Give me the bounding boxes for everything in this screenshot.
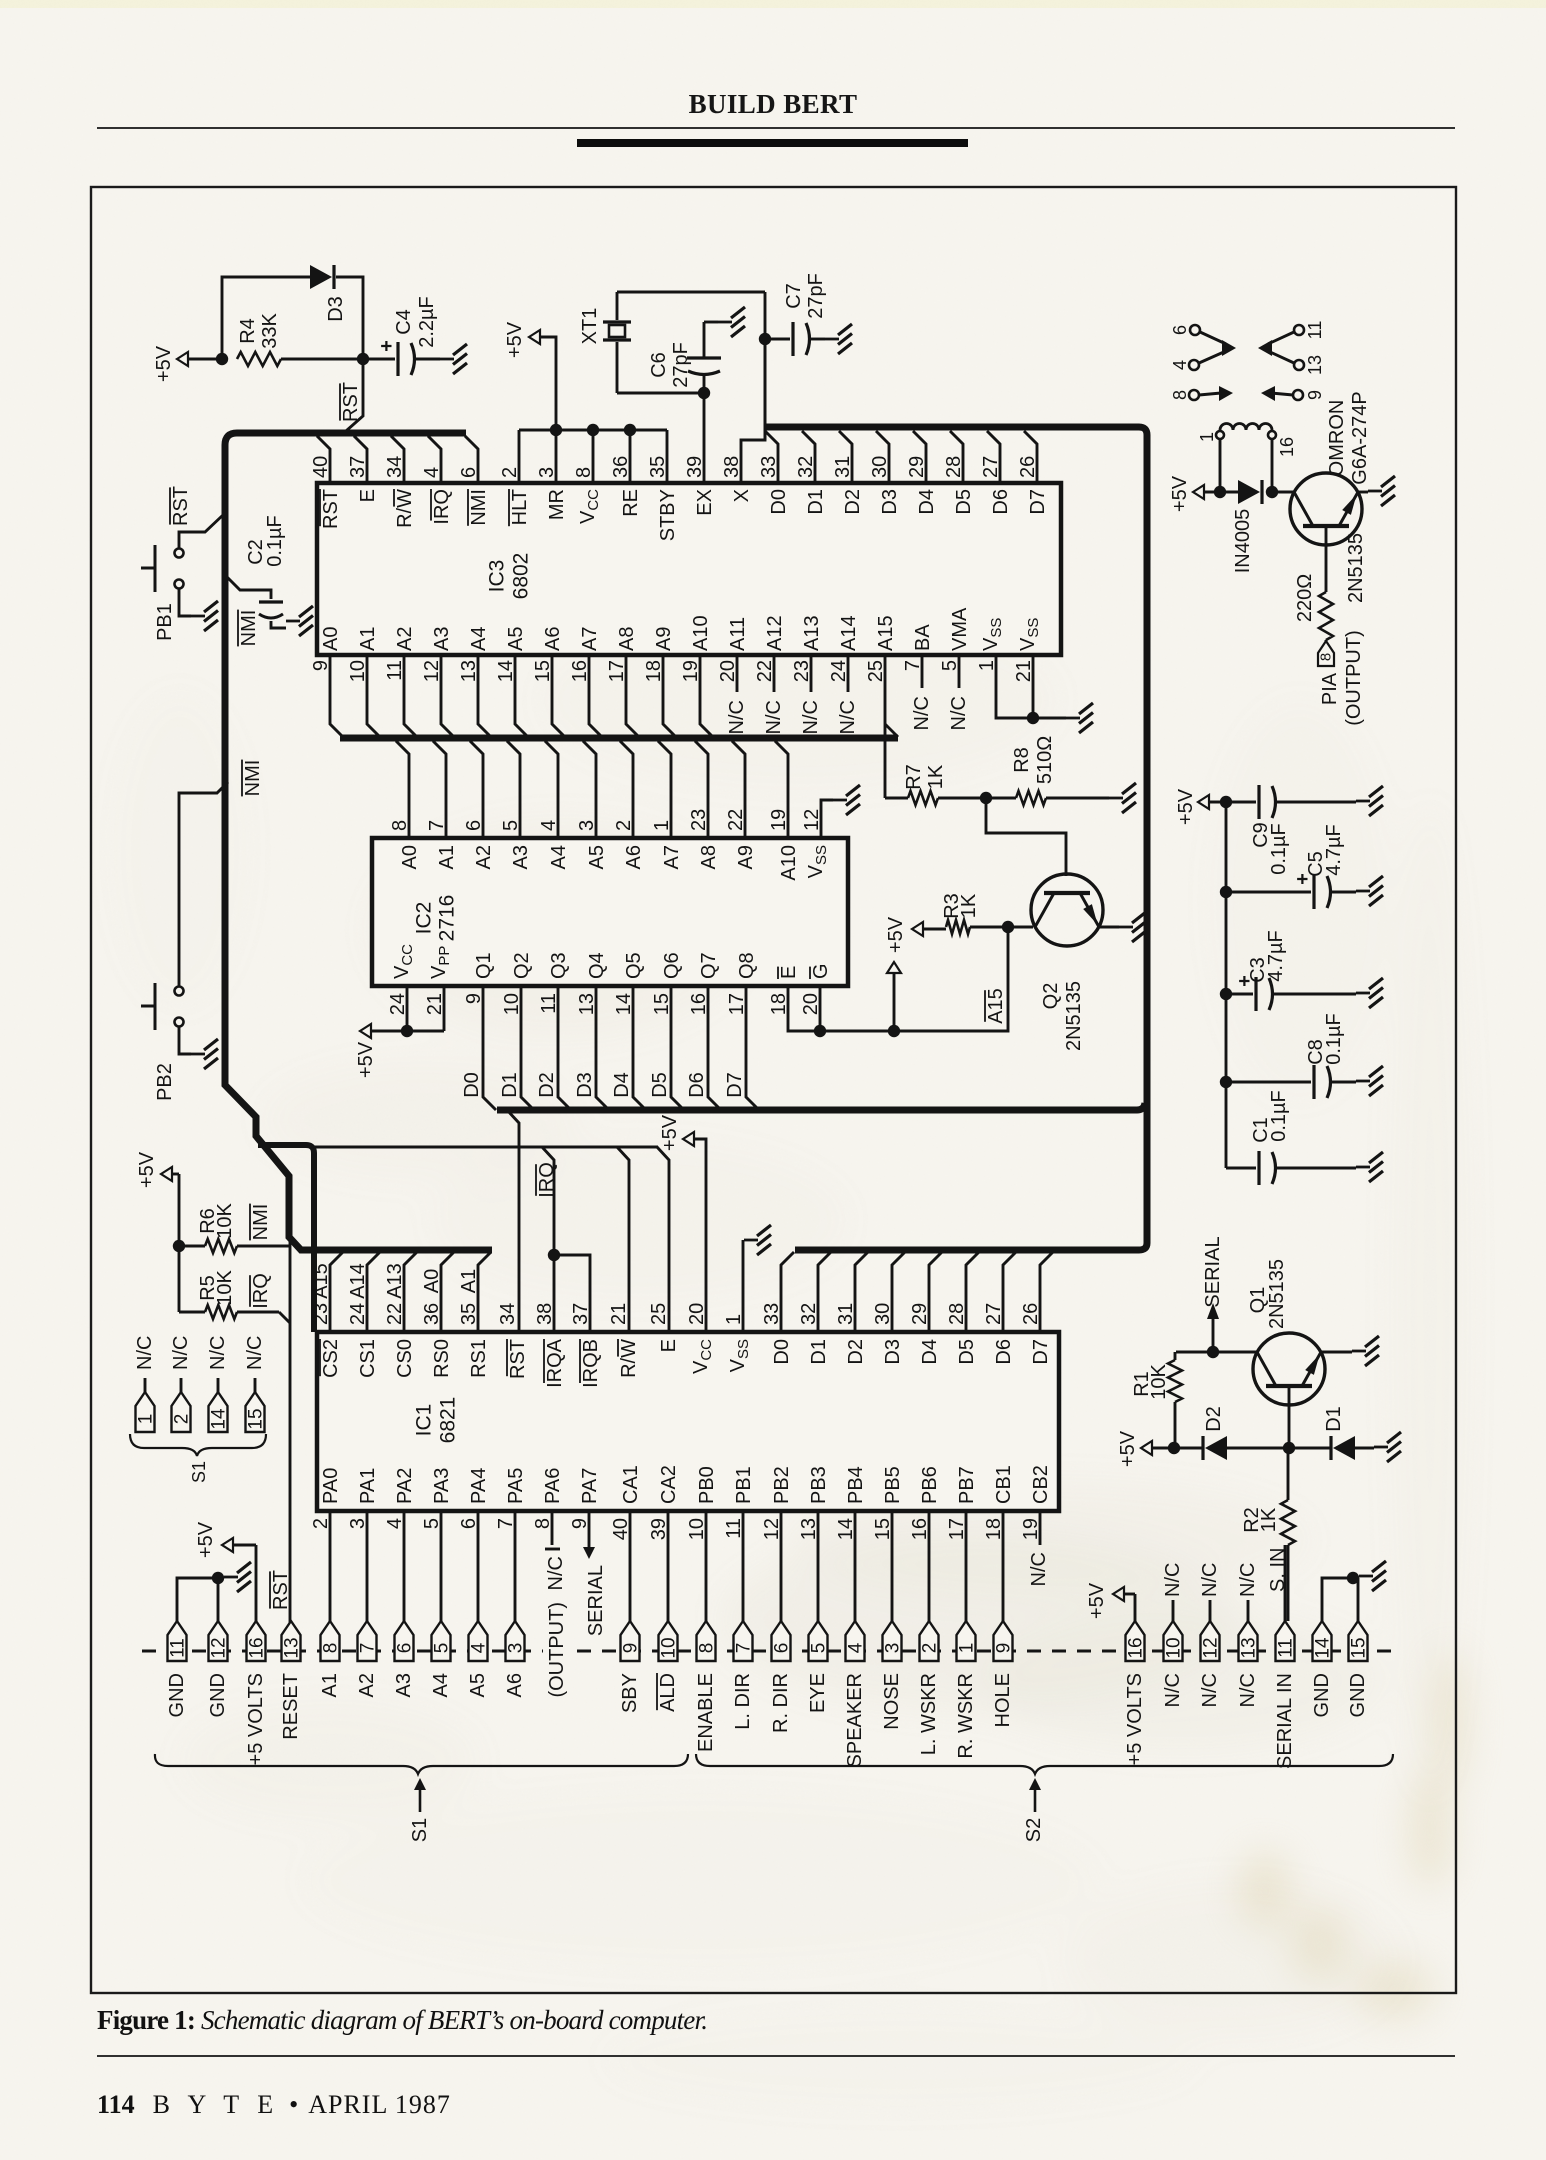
junction RST node bbox=[357, 353, 369, 365]
svg-text:PB7: PB7 bbox=[956, 1466, 978, 1504]
IC1 pin 17 PB7 bbox=[946, 1466, 978, 1621]
figure border frame bbox=[91, 187, 1456, 1993]
IC2 pin 17 Q8 bbox=[724, 952, 759, 1110]
svg-text:A6: A6 bbox=[504, 1673, 526, 1697]
svg-text:23: 23 bbox=[310, 1303, 332, 1325]
IC1 pin 7 PA5 bbox=[495, 1468, 527, 1621]
svg-text:10: 10 bbox=[1164, 1637, 1185, 1658]
ground C3 bbox=[1356, 992, 1370, 995]
svg-text:+5V: +5V bbox=[355, 1041, 377, 1078]
svg-text:A1: A1 bbox=[319, 1673, 341, 1697]
svg-text:N/C: N/C bbox=[244, 1336, 266, 1370]
svg-text:+5 VOLTS: +5 VOLTS bbox=[1124, 1673, 1146, 1765]
transistor 2N5135 relay driver bbox=[1290, 473, 1367, 603]
IC3 pin 30 D3 bbox=[869, 431, 901, 515]
svg-text:D7: D7 bbox=[1027, 489, 1049, 515]
svg-text:+5V: +5V bbox=[136, 1151, 158, 1188]
svg-text:510Ω: 510Ω bbox=[1034, 736, 1056, 784]
svg-text:10K: 10K bbox=[214, 1203, 236, 1239]
IC3 pin 6 NMI bbox=[458, 436, 490, 526]
svg-text:A10: A10 bbox=[778, 845, 800, 881]
svg-text:A10: A10 bbox=[690, 615, 712, 651]
svg-text:A14: A14 bbox=[838, 615, 860, 651]
wire D3 branch rail bbox=[222, 277, 310, 359]
wire Q1 base bbox=[1288, 1388, 1291, 1448]
IC3 pin 22 A12 bbox=[754, 615, 786, 734]
ground PB2 bbox=[191, 1053, 205, 1056]
IC1 pin 20 Vcc bbox=[686, 1139, 715, 1374]
svg-text:24: 24 bbox=[347, 1303, 369, 1325]
svg-text:PA4: PA4 bbox=[468, 1468, 490, 1504]
svg-text:N/C: N/C bbox=[134, 1336, 156, 1370]
svg-text:RST: RST bbox=[320, 489, 342, 529]
IC1 pin 8 PA6 bbox=[532, 1468, 564, 1549]
resistor R7 1K bbox=[885, 764, 986, 805]
IC2 pin 8 A0 bbox=[389, 741, 421, 869]
svg-text:D4: D4 bbox=[611, 1072, 633, 1098]
svg-text:D2: D2 bbox=[845, 1339, 867, 1365]
svg-text:SERIAL IN: SERIAL IN bbox=[1274, 1673, 1296, 1769]
IC1 pin 40 CA1 bbox=[610, 1465, 642, 1621]
wire N/C stub tag at 1248 bbox=[1237, 1563, 1259, 1621]
svg-text:A4: A4 bbox=[468, 627, 490, 651]
svg-text:+5V: +5V bbox=[153, 345, 175, 382]
svg-text:6: 6 bbox=[463, 820, 485, 831]
svg-text:A9: A9 bbox=[735, 845, 757, 869]
svg-text:15: 15 bbox=[1349, 1637, 1370, 1658]
svg-text:A1: A1 bbox=[458, 1269, 480, 1293]
connector tag 8 A1 bbox=[319, 1621, 342, 1697]
IC1 pin 14 PB4 bbox=[835, 1466, 867, 1621]
connector tag 5 A4 bbox=[430, 1621, 453, 1697]
IC3 pin 8 Vcc bbox=[573, 430, 602, 524]
svg-text:E: E bbox=[357, 489, 379, 502]
svg-text:PB2: PB2 bbox=[154, 1063, 176, 1101]
wire GND 14 15 to ground bbox=[1322, 1572, 1359, 1621]
IC3 pin 13 A4 bbox=[458, 627, 491, 737]
IC3 pin 5 VMA bbox=[939, 607, 971, 730]
svg-text:A4: A4 bbox=[548, 845, 570, 869]
svg-text:A0: A0 bbox=[421, 1269, 443, 1293]
IC2 pin 22 A9 bbox=[725, 741, 757, 869]
power +5V IC2 Vcc Vpp bbox=[355, 1024, 444, 1078]
IC1 pin 34 RST bbox=[497, 1110, 529, 1379]
svg-text:8: 8 bbox=[1318, 653, 1335, 661]
IC1 pin 39 CA2 bbox=[648, 1465, 680, 1621]
svg-text:A1: A1 bbox=[436, 845, 458, 869]
svg-text:1: 1 bbox=[957, 1643, 978, 1654]
IC3 pin 29 D4 bbox=[906, 431, 938, 515]
svg-text:D5: D5 bbox=[649, 1072, 671, 1098]
svg-text:14: 14 bbox=[209, 1408, 230, 1430]
svg-text:Q3: Q3 bbox=[548, 952, 570, 979]
svg-text:RST: RST bbox=[340, 382, 362, 422]
svg-text:GND: GND bbox=[166, 1673, 188, 1717]
IC3 pin 24 A14 bbox=[828, 615, 860, 734]
pushbutton PB1 bbox=[141, 545, 184, 641]
svg-text:A5: A5 bbox=[505, 627, 527, 651]
connector tag 13 N/C bbox=[1237, 1621, 1260, 1707]
IC3 pin 39 EX bbox=[684, 393, 716, 516]
connector tag 11 SERIAL IN bbox=[1274, 1621, 1297, 1769]
IC2 pin 18 E bbox=[768, 966, 820, 1031]
svg-text:9: 9 bbox=[994, 1643, 1015, 1654]
svg-text:8: 8 bbox=[1170, 390, 1190, 400]
svg-text:9: 9 bbox=[621, 1643, 642, 1654]
svg-text:G: G bbox=[810, 963, 832, 979]
junction R3 Q2 A15 bbox=[1002, 921, 1014, 933]
diode D2 bbox=[1174, 1406, 1289, 1460]
svg-text:RST: RST bbox=[270, 1570, 292, 1610]
svg-text:34: 34 bbox=[497, 1303, 519, 1325]
svg-text:E: E bbox=[658, 1339, 680, 1352]
svg-text:+5 VOLTS: +5 VOLTS bbox=[245, 1673, 267, 1765]
svg-text:11: 11 bbox=[1276, 1638, 1297, 1658]
ground C7 bbox=[825, 338, 839, 341]
ground C2 bbox=[286, 620, 300, 623]
svg-text:+5V: +5V bbox=[504, 321, 526, 358]
svg-text:1: 1 bbox=[651, 820, 673, 831]
svg-text:R/W: R/W bbox=[618, 1339, 640, 1378]
IC3 pin 37 E bbox=[347, 436, 379, 502]
svg-text:5: 5 bbox=[432, 1643, 453, 1654]
junction IC3 Vss pins bbox=[1027, 712, 1039, 724]
svg-text:12: 12 bbox=[1201, 1637, 1222, 1658]
svg-text:S. IN: S. IN bbox=[1267, 1548, 1289, 1592]
svg-text:+5V: +5V bbox=[1117, 1430, 1139, 1467]
IC3 pin 33 D0 bbox=[758, 431, 790, 515]
svg-text:17: 17 bbox=[726, 993, 748, 1015]
IC IC2 2716 body bbox=[372, 838, 848, 986]
svg-text:0.1µF: 0.1µF bbox=[264, 515, 286, 567]
resistor 220ohm bbox=[1294, 526, 1333, 640]
transistor Q1 2N5135 bbox=[1247, 1259, 1325, 1405]
junction coil16 diode bbox=[1266, 486, 1278, 498]
IC2 pin 13 Q4 bbox=[574, 952, 609, 1110]
svg-text:(OUTPUT): (OUTPUT) bbox=[546, 1602, 568, 1698]
svg-text:L. DIR: L. DIR bbox=[732, 1673, 754, 1730]
IC1 pin 18 CB1 bbox=[983, 1465, 1015, 1621]
svg-text:23: 23 bbox=[688, 809, 710, 831]
IC1 pin 9 PA7 bbox=[569, 1468, 601, 1559]
IC2 pin 20 G bbox=[800, 963, 832, 1031]
svg-text:22: 22 bbox=[725, 809, 747, 831]
svg-text:SPEAKER: SPEAKER bbox=[844, 1673, 866, 1767]
IC2 pin 12 Vss bbox=[801, 800, 833, 878]
relay contact armature left bottom bbox=[1219, 386, 1233, 401]
svg-text:S1: S1 bbox=[189, 1461, 209, 1483]
ground C5 bbox=[1356, 890, 1370, 893]
IC1 pin 22 CS0 bbox=[384, 1252, 417, 1378]
svg-text:IC1: IC1 bbox=[413, 1404, 436, 1437]
svg-text:2: 2 bbox=[920, 1643, 941, 1654]
svg-text:A9: A9 bbox=[653, 627, 675, 651]
IC3 pin 26 D7 bbox=[1017, 431, 1049, 515]
svg-text:A13: A13 bbox=[384, 1263, 406, 1299]
svg-text:D6: D6 bbox=[993, 1339, 1015, 1365]
svg-text:3: 3 bbox=[883, 1643, 904, 1654]
wire coil pin16 to diode node bbox=[1271, 439, 1274, 492]
svg-text:10: 10 bbox=[501, 993, 523, 1015]
power +5V arrow R3 bbox=[912, 922, 946, 936]
capacitor C7 27pF bbox=[765, 273, 827, 356]
svg-text:IC2: IC2 bbox=[413, 902, 436, 935]
IC2 pin 14 Q5 bbox=[611, 952, 646, 1110]
svg-text:4: 4 bbox=[1170, 360, 1190, 370]
svg-text:IRQ: IRQ bbox=[250, 1273, 272, 1309]
label PIA OUTPUT bbox=[1319, 630, 1365, 726]
svg-text:+5V: +5V bbox=[659, 1114, 681, 1151]
connector tag 10 N/C bbox=[1162, 1621, 1185, 1707]
connector S1 pin 1 N/C bbox=[134, 1336, 157, 1432]
IC3 pin 34 R/W bbox=[384, 436, 416, 528]
svg-text:N/C: N/C bbox=[170, 1336, 192, 1370]
svg-text:GND: GND bbox=[1347, 1673, 1369, 1717]
svg-text:A8: A8 bbox=[616, 627, 638, 651]
svg-text:8: 8 bbox=[321, 1643, 342, 1654]
svg-text:IRQB: IRQB bbox=[580, 1339, 602, 1388]
capacitor C3 4.7uF bbox=[1226, 930, 1356, 1011]
IC3 pin 12 A3 bbox=[421, 627, 454, 737]
svg-text:20: 20 bbox=[800, 993, 822, 1015]
svg-text:ALD: ALD bbox=[657, 1673, 679, 1712]
connector tag 6 A3 bbox=[393, 1621, 416, 1697]
svg-text:PA2: PA2 bbox=[394, 1468, 416, 1504]
svg-text:D1: D1 bbox=[499, 1072, 521, 1098]
IC2 pin 11 Q3 bbox=[536, 952, 571, 1110]
ground PB1 bbox=[191, 615, 205, 618]
connector tag 14 GND bbox=[1311, 1621, 1334, 1717]
svg-text:11: 11 bbox=[168, 1638, 189, 1658]
junction C3 bbox=[1220, 988, 1232, 1000]
ground C6 bbox=[718, 321, 732, 324]
svg-text:N/C: N/C bbox=[1162, 1563, 1184, 1597]
svg-text:GND: GND bbox=[1311, 1673, 1333, 1717]
ground Q1 emitter bbox=[1321, 1336, 1379, 1366]
arrow S1 label bbox=[409, 1778, 431, 1842]
svg-text:Q1: Q1 bbox=[473, 952, 495, 979]
svg-text:Q2: Q2 bbox=[1040, 983, 1062, 1010]
svg-text:NMI: NMI bbox=[238, 610, 260, 647]
svg-text:2.2µF: 2.2µF bbox=[416, 296, 438, 348]
svg-text:SBY: SBY bbox=[619, 1673, 641, 1713]
IC2 pin 10 Q2 bbox=[499, 952, 534, 1110]
paper speckle bbox=[0, 0, 1, 1]
arrow SERIAL out bbox=[1202, 1236, 1224, 1352]
wire N/C stub tag at 1210 bbox=[1199, 1563, 1221, 1621]
IC2 pin 23 A8 bbox=[688, 741, 720, 869]
svg-text:VMA: VMA bbox=[949, 607, 971, 651]
wire N/C stub tag at 1173 bbox=[1162, 1563, 1184, 1621]
svg-text:1: 1 bbox=[1197, 432, 1217, 442]
svg-text:3: 3 bbox=[576, 820, 598, 831]
brace S2 row bbox=[696, 1754, 1393, 1774]
IC3 pin 20 A11 bbox=[717, 617, 749, 735]
transistor Q2 2N5135 bbox=[1031, 874, 1103, 1051]
capacitor C9 0.1uF bbox=[1226, 785, 1356, 875]
resistor R2 1K bbox=[1241, 1448, 1295, 1621]
svg-text:C6: C6 bbox=[648, 352, 670, 378]
svg-text:22: 22 bbox=[384, 1303, 406, 1325]
bus data IC2 Q outputs bbox=[497, 1103, 1145, 1110]
connector tag 8 ENABLE bbox=[695, 1621, 718, 1752]
resistor R1 10K bbox=[1131, 1352, 1182, 1448]
wire RESET trunk to S1 bbox=[289, 1237, 292, 1626]
IC3 pin 10 A1 bbox=[347, 627, 380, 737]
svg-text:PB6: PB6 bbox=[919, 1466, 941, 1504]
wire Q1 collector bbox=[1176, 1351, 1257, 1354]
svg-text:PB5: PB5 bbox=[882, 1466, 904, 1504]
svg-text:6: 6 bbox=[772, 1643, 793, 1654]
svg-text:A5: A5 bbox=[467, 1673, 489, 1697]
svg-text:D3: D3 bbox=[325, 296, 347, 322]
svg-text:EX: EX bbox=[694, 489, 716, 516]
svg-text:11: 11 bbox=[538, 993, 560, 1014]
svg-text:X: X bbox=[731, 489, 753, 502]
svg-text:13: 13 bbox=[1305, 355, 1325, 375]
diode D1 bbox=[1289, 1406, 1374, 1460]
IC1 pin 3 PA1 bbox=[347, 1468, 379, 1621]
svg-text:D3: D3 bbox=[574, 1072, 596, 1098]
svg-text:27pF: 27pF bbox=[670, 342, 692, 388]
connector tag 4 A5 bbox=[467, 1621, 490, 1697]
svg-text:R/W: R/W bbox=[394, 489, 416, 528]
svg-text:2N5135: 2N5135 bbox=[1266, 1259, 1288, 1329]
junction RE rail bbox=[624, 424, 636, 436]
svg-text:8: 8 bbox=[697, 1643, 718, 1654]
IC2 pin 5 A3 bbox=[500, 741, 532, 869]
svg-text:A4: A4 bbox=[430, 1673, 452, 1697]
svg-text:6: 6 bbox=[395, 1643, 416, 1654]
svg-text:12: 12 bbox=[209, 1637, 230, 1658]
junction Vcc rail bbox=[587, 424, 599, 436]
svg-text:A11: A11 bbox=[727, 617, 749, 651]
svg-text:18: 18 bbox=[768, 993, 790, 1015]
IC1 pin 13 PB3 bbox=[798, 1466, 830, 1621]
svg-text:1: 1 bbox=[136, 1414, 157, 1425]
svg-text:10K: 10K bbox=[1148, 1364, 1170, 1400]
junction R7 R8 base bbox=[980, 792, 992, 804]
svg-text:A15: A15 bbox=[310, 1263, 332, 1299]
svg-text:NMI: NMI bbox=[250, 1204, 272, 1241]
IC1 pin 29 D4 bbox=[909, 1252, 942, 1365]
connector tag 1 R. WSKR bbox=[955, 1621, 978, 1759]
IC1 pin 4 PA2 bbox=[384, 1468, 416, 1621]
svg-text:D1: D1 bbox=[805, 489, 827, 515]
brace S1 NC cluster bbox=[130, 1434, 266, 1456]
junction C8 bbox=[1220, 1076, 1232, 1088]
svg-text:N/C: N/C bbox=[1028, 1552, 1050, 1586]
IC1 pin 12 PB2 bbox=[761, 1466, 793, 1621]
capacitor C4 2.2uF bbox=[363, 296, 440, 376]
svg-text:5: 5 bbox=[809, 1643, 830, 1654]
IC1 pin 19 CB2 bbox=[1020, 1465, 1052, 1545]
IC3 pin 28 D5 bbox=[943, 431, 975, 515]
IC3 pin 4 IRQ bbox=[421, 436, 453, 525]
svg-text:D6: D6 bbox=[990, 489, 1012, 515]
svg-text:16: 16 bbox=[1126, 1637, 1147, 1658]
svg-text:D1: D1 bbox=[1323, 1406, 1345, 1432]
capacitor C1 0.1uF bbox=[1226, 1090, 1356, 1185]
relay contact armature right bottom bbox=[1261, 386, 1275, 401]
svg-text:7: 7 bbox=[358, 1643, 379, 1654]
svg-text:A3: A3 bbox=[393, 1673, 415, 1697]
svg-text:N/C: N/C bbox=[911, 696, 933, 730]
ground C1 bbox=[1356, 1166, 1370, 1169]
svg-text:21: 21 bbox=[424, 993, 446, 1015]
connector tag 2 L. WSKR bbox=[918, 1621, 941, 1755]
svg-text:A15: A15 bbox=[875, 615, 897, 651]
svg-text:RE: RE bbox=[620, 489, 642, 517]
wire PB1 to RST trunk bbox=[170, 486, 223, 548]
svg-text:6802: 6802 bbox=[510, 553, 533, 600]
IC1 pin 5 PA3 bbox=[421, 1468, 453, 1621]
svg-text:D0: D0 bbox=[768, 489, 790, 515]
svg-text:Q5: Q5 bbox=[623, 952, 645, 979]
svg-text:A3: A3 bbox=[510, 845, 532, 869]
connector tag 12 GND bbox=[207, 1621, 230, 1717]
svg-text:36: 36 bbox=[421, 1303, 443, 1325]
svg-text:1K: 1K bbox=[925, 764, 947, 789]
svg-text:1K: 1K bbox=[958, 893, 980, 918]
svg-text:PB2: PB2 bbox=[771, 1466, 793, 1504]
IC3 pin 9 A0 bbox=[310, 627, 343, 737]
IC1 pin 23 CS2 bbox=[310, 1252, 343, 1378]
header black bar bbox=[577, 139, 968, 147]
IC3 pin 3 MR bbox=[536, 430, 568, 520]
svg-text:PIA: PIA bbox=[1319, 672, 1341, 705]
ground IC1 Vss bbox=[744, 1239, 758, 1242]
svg-text:A1: A1 bbox=[357, 627, 379, 651]
power +5V arrow cap bank bbox=[1175, 788, 1226, 825]
svg-text:N/C: N/C bbox=[545, 1556, 567, 1590]
IC1 pin 11 PB1 bbox=[723, 1466, 755, 1621]
svg-text:A6: A6 bbox=[623, 845, 645, 869]
connector tag 5 EYE bbox=[807, 1621, 830, 1713]
svg-text:4: 4 bbox=[538, 820, 560, 831]
wire cap bank rail bbox=[1225, 802, 1228, 1168]
IC1 pin 31 D2 bbox=[835, 1252, 868, 1365]
IC3 pin 25 A15 bbox=[865, 615, 898, 798]
capacitor C5 4.7uF bbox=[1226, 824, 1356, 909]
connector tag 10 ALD bbox=[657, 1621, 680, 1712]
junction Q1 base D1 D2 R2 bbox=[1283, 1442, 1295, 1454]
ground S1 GND pins bbox=[224, 1576, 238, 1579]
svg-text:2716: 2716 bbox=[436, 895, 459, 942]
svg-text:D6: D6 bbox=[686, 1072, 708, 1098]
svg-text:2N5135: 2N5135 bbox=[1345, 533, 1367, 603]
footer rule bbox=[97, 2055, 1455, 2057]
svg-text:16: 16 bbox=[688, 993, 710, 1015]
svg-text:13: 13 bbox=[1239, 1637, 1260, 1658]
svg-text:PA0: PA0 bbox=[320, 1468, 342, 1504]
svg-text:10K: 10K bbox=[214, 1270, 236, 1306]
svg-text:D5: D5 bbox=[956, 1339, 978, 1365]
ground Q2 emitter bbox=[1100, 912, 1146, 942]
svg-text:D7: D7 bbox=[724, 1072, 746, 1098]
crystal XT1 loop wires bbox=[617, 292, 765, 440]
faint yellow tint top edge bbox=[0, 0, 1546, 8]
ground C8 bbox=[1356, 1080, 1370, 1083]
junction +5V R4 D3 bbox=[216, 353, 228, 365]
bus bundle to IC1 corner (E,R/W,IRQ) bbox=[258, 1145, 314, 1332]
svg-text:SERIAL: SERIAL bbox=[1202, 1236, 1224, 1307]
svg-text:BUILD BERT: BUILD BERT bbox=[689, 89, 858, 119]
junction R6 bbox=[173, 1240, 185, 1252]
IC1 pin 36 RS0 bbox=[421, 1252, 454, 1378]
connector tag 13 RESET bbox=[280, 1621, 303, 1740]
svg-text:A2: A2 bbox=[473, 845, 495, 869]
